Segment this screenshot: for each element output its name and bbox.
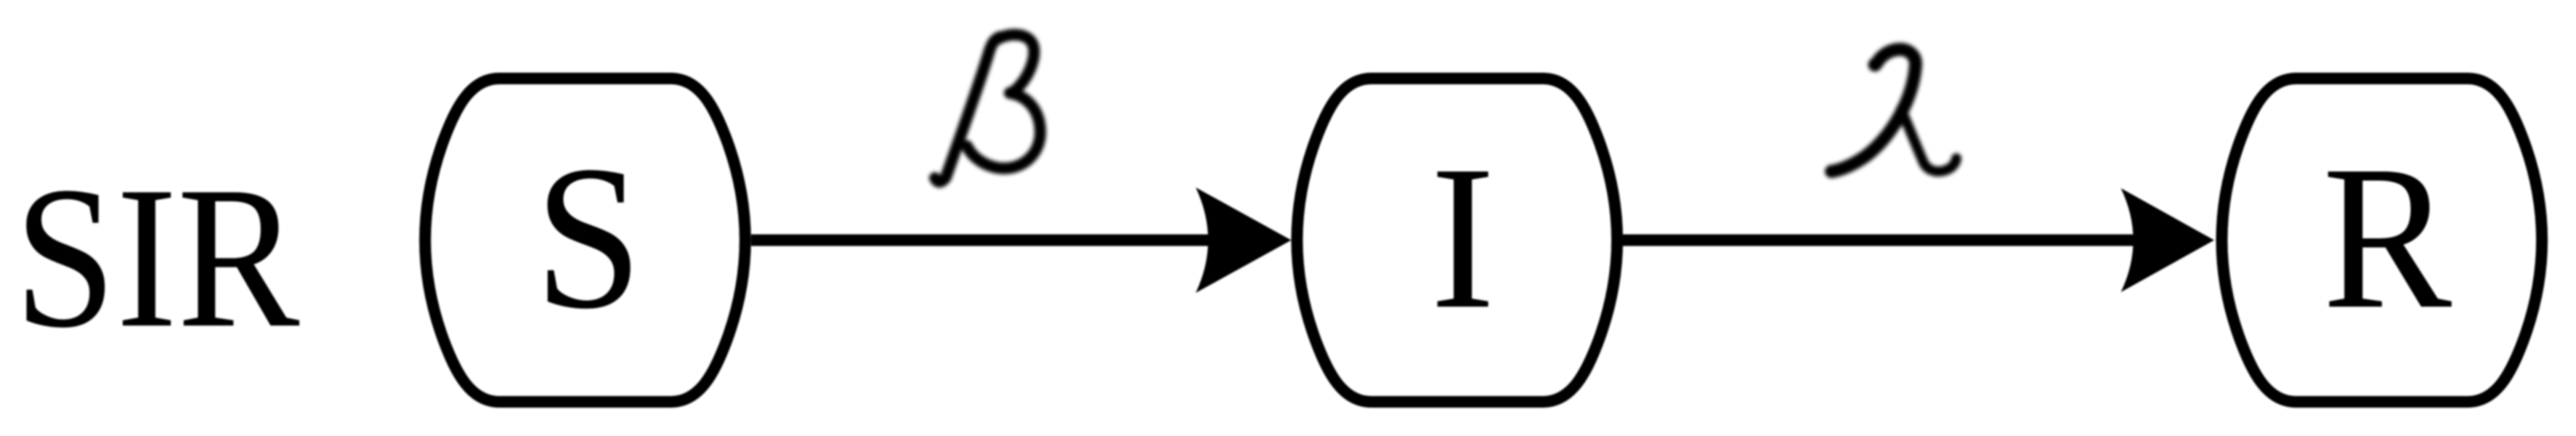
node I label: [1430, 123, 1495, 352]
svg-text:R: R: [2322, 123, 2453, 352]
compartment node I (box): [1297, 78, 1618, 402]
node S label: [535, 123, 642, 352]
svg-text:SIR: SIR: [14, 144, 300, 370]
wire: arrow shaft I to R: [1623, 235, 2150, 246]
rate label lambda (right leg with foot): [1901, 109, 1956, 171]
svg-text:S: S: [535, 123, 642, 352]
node R label: [2322, 123, 2453, 352]
svg-text:I: I: [1430, 123, 1495, 352]
diagram title "SIR": [14, 144, 300, 370]
compartment node R (box): [2222, 78, 2543, 402]
rate label beta (stem): [935, 37, 1000, 182]
rate label lambda (hook and main diagonal): [1868, 58, 1882, 72]
rate label beta (top loop): [994, 35, 1034, 93]
arrowhead S to I: [1196, 187, 1292, 293]
wire: arrow shaft S to I: [751, 235, 1228, 246]
compartment node S (box): [425, 78, 745, 402]
rate label beta (bottom bowl): [967, 93, 1040, 169]
arrowhead I to R: [2121, 188, 2215, 292]
